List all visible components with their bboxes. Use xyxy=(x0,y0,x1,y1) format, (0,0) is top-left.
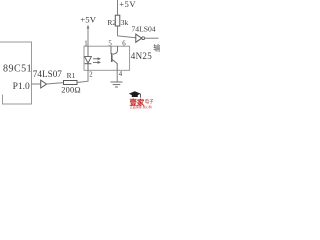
wire +5V right down to R2 xyxy=(117,0,119,15)
svg-text:74LS07: 74LS07 xyxy=(33,69,63,79)
light arrow lower xyxy=(93,61,99,63)
svg-text:电子: 电子 xyxy=(145,98,154,104)
svg-text:6: 6 xyxy=(122,41,126,48)
svg-text:+5V: +5V xyxy=(119,0,136,9)
inverter U4 74LS04 triangle xyxy=(136,34,142,42)
resistor R1 body xyxy=(64,81,78,85)
collector bend from R2 line xyxy=(113,46,118,54)
svg-text:2: 2 xyxy=(89,72,93,79)
LED anode lead inside box xyxy=(87,46,89,56)
svg-text:3k: 3k xyxy=(121,18,129,27)
watermark graduation cap xyxy=(129,91,141,97)
svg-text:200Ω: 200Ω xyxy=(61,85,81,94)
phototransistor Q1 base bar xyxy=(111,53,113,62)
LED D1 triangle xyxy=(85,57,92,63)
wire buffer output to R1 xyxy=(47,83,64,84)
wire inverter output xyxy=(145,37,159,39)
optocoupler U3 4N25 box xyxy=(84,46,130,70)
svg-text:P1.0: P1.0 xyxy=(13,82,30,92)
LED cathode lead to pin 2 xyxy=(87,64,89,71)
wire P1.0 to buffer input xyxy=(32,83,41,85)
svg-text:输: 输 xyxy=(153,44,160,53)
pin 5 collector stub xyxy=(110,46,112,54)
svg-text:74LS04: 74LS04 xyxy=(132,25,156,34)
svg-text:89C51: 89C51 xyxy=(3,64,32,75)
svg-text:+5V: +5V xyxy=(80,15,97,25)
wire +5V down to pin 1 xyxy=(87,26,89,46)
emitter lead to pin 4 xyxy=(113,60,118,71)
wire R2 down to collector node xyxy=(117,26,119,36)
svg-text:正品保障·放心购: 正品保障·放心购 xyxy=(130,104,152,109)
arrow up for +5V left xyxy=(87,25,90,29)
microcontroller U1 89C51 box xyxy=(0,42,32,104)
wire node to inverter input xyxy=(118,36,136,38)
svg-text:4: 4 xyxy=(119,71,123,78)
resistor R2 body xyxy=(115,15,120,26)
svg-text:5: 5 xyxy=(108,41,112,48)
svg-text:4N25: 4N25 xyxy=(131,51,152,61)
inverter output bubble xyxy=(142,37,145,40)
buffer U2 74LS07 triangle xyxy=(41,80,47,88)
emitter lead below box xyxy=(116,71,118,82)
svg-text:R1: R1 xyxy=(67,71,76,80)
LED cathode bar xyxy=(85,63,92,65)
ground xyxy=(111,82,123,87)
light arrow upper xyxy=(93,58,99,60)
wire R1 to pin 2 of optocoupler xyxy=(77,71,88,83)
